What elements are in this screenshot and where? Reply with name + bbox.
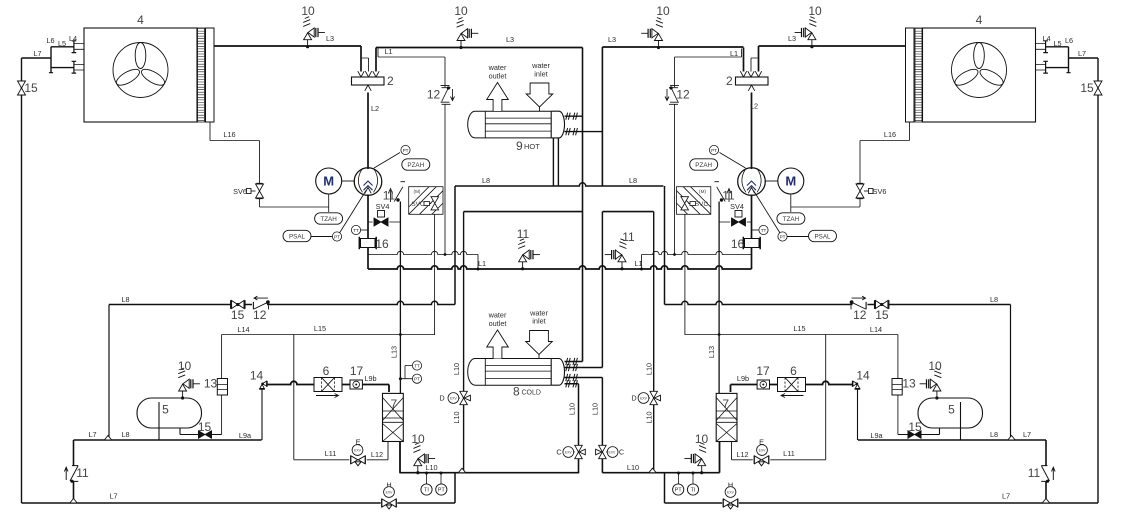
- svg-text:10: 10: [808, 4, 822, 18]
- svg-text:11: 11: [1028, 466, 1041, 480]
- svg-text:D: D: [439, 394, 444, 403]
- svg-text:L4: L4: [1042, 34, 1050, 43]
- svg-text:15: 15: [231, 308, 245, 322]
- svg-text:L1: L1: [478, 259, 486, 268]
- svg-text:15: 15: [908, 420, 922, 434]
- svg-text:PZAH: PZAH: [407, 162, 424, 169]
- svg-text:14: 14: [856, 369, 870, 383]
- svg-text:L7: L7: [88, 430, 96, 439]
- svg-text:inlet: inlet: [534, 70, 547, 79]
- svg-text:L13: L13: [707, 346, 716, 358]
- svg-text:EXV: EXV: [450, 396, 458, 400]
- svg-text:PZAH: PZAH: [695, 162, 712, 169]
- svg-text:PT: PT: [334, 234, 340, 239]
- svg-text:L8: L8: [990, 430, 998, 439]
- svg-text:PT: PT: [414, 377, 420, 382]
- svg-text:outlet: outlet: [489, 319, 507, 328]
- svg-text:15: 15: [198, 420, 212, 434]
- svg-text:SV6: SV6: [233, 187, 247, 196]
- svg-text:L4: L4: [69, 34, 77, 43]
- svg-text:TZAH: TZAH: [783, 216, 800, 223]
- svg-text:M: M: [785, 174, 796, 189]
- svg-text:5: 5: [948, 403, 955, 417]
- svg-text:L11: L11: [325, 449, 337, 458]
- svg-text:L16: L16: [223, 130, 235, 139]
- svg-text:(M): (M): [414, 189, 421, 194]
- svg-text:4: 4: [137, 13, 144, 27]
- svg-text:16: 16: [375, 237, 389, 251]
- svg-text:L10: L10: [591, 403, 600, 415]
- svg-text:L9b: L9b: [737, 374, 749, 383]
- svg-text:SV4: SV4: [376, 202, 390, 211]
- svg-text:COLD: COLD: [522, 390, 541, 397]
- svg-text:L6: L6: [46, 36, 54, 45]
- svg-text:6: 6: [790, 364, 797, 378]
- svg-text:TT: TT: [761, 228, 767, 233]
- svg-text:12: 12: [853, 308, 867, 322]
- svg-text:12: 12: [676, 88, 690, 102]
- svg-text:E: E: [759, 438, 764, 447]
- svg-text:11: 11: [76, 466, 89, 480]
- svg-text:PT: PT: [780, 234, 786, 239]
- svg-text:HOT: HOT: [524, 142, 540, 151]
- svg-text:L10: L10: [644, 363, 653, 375]
- svg-text:SVC: SVC: [695, 201, 709, 208]
- svg-text:L9a: L9a: [870, 431, 883, 440]
- svg-text:10: 10: [695, 432, 709, 446]
- svg-text:L12: L12: [736, 450, 748, 459]
- svg-text:EXV: EXV: [727, 490, 735, 494]
- svg-text:10: 10: [301, 4, 315, 18]
- svg-text:L9a: L9a: [239, 431, 252, 440]
- svg-text:L14: L14: [870, 325, 882, 334]
- svg-text:L7: L7: [33, 49, 41, 58]
- svg-text:PSAL: PSAL: [814, 234, 831, 241]
- svg-text:L7: L7: [1023, 430, 1031, 439]
- svg-text:14: 14: [250, 369, 264, 383]
- svg-text:7: 7: [722, 397, 729, 411]
- svg-text:L8: L8: [121, 295, 129, 304]
- svg-text:TT: TT: [353, 228, 359, 233]
- svg-text:TZAH: TZAH: [320, 216, 337, 223]
- svg-text:15: 15: [24, 81, 38, 95]
- svg-text:12: 12: [427, 88, 441, 102]
- svg-text:L10: L10: [627, 463, 639, 472]
- svg-text:L8: L8: [121, 430, 129, 439]
- svg-text:L10: L10: [568, 403, 577, 415]
- svg-text:13: 13: [902, 377, 916, 391]
- svg-text:10: 10: [928, 359, 942, 373]
- svg-text:6: 6: [323, 364, 330, 378]
- svg-text:L8: L8: [629, 176, 637, 185]
- svg-text:H: H: [386, 481, 391, 490]
- svg-text:L9b: L9b: [364, 374, 376, 383]
- svg-text:2: 2: [387, 74, 394, 88]
- svg-text:12: 12: [253, 308, 267, 322]
- svg-text:17: 17: [350, 364, 364, 378]
- svg-text:C: C: [619, 448, 624, 457]
- svg-text:inlet: inlet: [532, 317, 545, 326]
- svg-text:15: 15: [875, 308, 889, 322]
- svg-text:L1: L1: [384, 47, 392, 56]
- svg-text:10: 10: [411, 432, 425, 446]
- svg-text:E: E: [356, 438, 361, 447]
- svg-text:10: 10: [656, 4, 670, 18]
- svg-text:11: 11: [517, 227, 530, 241]
- svg-text:16: 16: [731, 237, 745, 251]
- svg-text:L3: L3: [326, 34, 334, 43]
- svg-text:11: 11: [722, 189, 735, 203]
- svg-text:SV4: SV4: [730, 202, 744, 211]
- svg-text:L1: L1: [634, 259, 642, 268]
- svg-text:H: H: [728, 481, 733, 490]
- svg-text:11: 11: [383, 189, 396, 203]
- svg-text:PSAL: PSAL: [289, 234, 306, 241]
- svg-text:L10: L10: [644, 411, 653, 423]
- svg-text:L3: L3: [608, 35, 616, 44]
- svg-text:L2: L2: [371, 104, 379, 113]
- svg-text:L7: L7: [1078, 49, 1086, 58]
- svg-text:PT: PT: [675, 488, 683, 494]
- svg-text:L5: L5: [58, 39, 66, 48]
- svg-text:L10: L10: [452, 363, 461, 375]
- svg-text:SV6: SV6: [873, 187, 887, 196]
- svg-text:L15: L15: [793, 324, 805, 333]
- svg-text:8: 8: [513, 385, 520, 399]
- svg-text:outlet: outlet: [489, 72, 507, 81]
- svg-text:SVC: SVC: [411, 201, 425, 208]
- svg-text:7: 7: [390, 397, 397, 411]
- svg-text:L15: L15: [314, 324, 326, 333]
- svg-text:PT: PT: [403, 148, 409, 153]
- svg-text:EXV: EXV: [386, 490, 394, 494]
- svg-text:L12: L12: [371, 450, 383, 459]
- svg-text:TT: TT: [414, 363, 420, 368]
- svg-text:EXV: EXV: [565, 450, 573, 454]
- svg-text:L6: L6: [1065, 36, 1073, 45]
- svg-text:C: C: [556, 448, 561, 457]
- svg-text:TI: TI: [691, 488, 696, 494]
- svg-text:L10: L10: [452, 411, 461, 423]
- svg-text:L10: L10: [425, 463, 437, 472]
- svg-text:15: 15: [1080, 81, 1094, 95]
- svg-text:L16: L16: [884, 130, 896, 139]
- svg-text:L3: L3: [788, 34, 796, 43]
- svg-text:L8: L8: [482, 176, 490, 185]
- svg-text:PT: PT: [711, 148, 717, 153]
- svg-text:D: D: [631, 394, 636, 403]
- svg-text:L8: L8: [990, 295, 998, 304]
- svg-text:10: 10: [454, 4, 468, 18]
- svg-text:PT: PT: [438, 488, 446, 494]
- svg-text:L13: L13: [390, 346, 399, 358]
- svg-text:13: 13: [204, 377, 218, 391]
- svg-text:L2: L2: [750, 102, 758, 111]
- svg-text:L5: L5: [1053, 39, 1061, 48]
- svg-text:L11: L11: [783, 449, 795, 458]
- svg-text:10: 10: [178, 359, 192, 373]
- svg-text:(M): (M): [699, 189, 706, 194]
- svg-text:L1: L1: [730, 49, 738, 58]
- svg-text:L3: L3: [506, 35, 514, 44]
- svg-text:M: M: [323, 174, 334, 189]
- svg-text:4: 4: [976, 13, 983, 27]
- svg-text:11: 11: [622, 230, 635, 244]
- svg-text:17: 17: [756, 364, 770, 378]
- svg-text:5: 5: [162, 403, 169, 417]
- svg-text:9: 9: [516, 139, 523, 153]
- svg-text:EXV: EXV: [759, 448, 767, 452]
- svg-text:L7: L7: [1002, 492, 1010, 501]
- svg-text:2: 2: [726, 74, 733, 88]
- svg-text:L14: L14: [237, 325, 249, 334]
- svg-text:EXV: EXV: [354, 448, 362, 452]
- svg-text:L7: L7: [109, 492, 117, 501]
- svg-text:EXV: EXV: [640, 396, 648, 400]
- svg-text:TI: TI: [424, 488, 429, 494]
- svg-text:EXV: EXV: [609, 450, 617, 454]
